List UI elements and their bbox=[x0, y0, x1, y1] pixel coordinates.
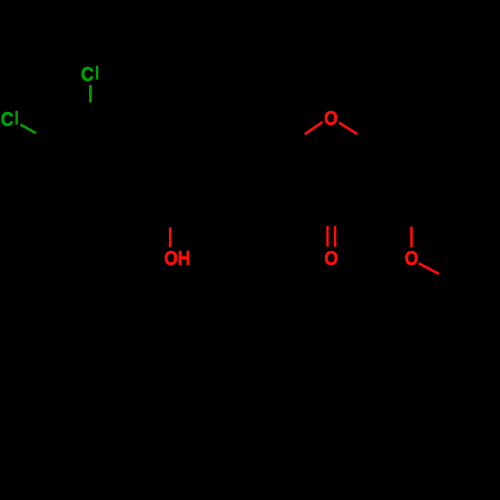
svg-text:O: O bbox=[324, 107, 338, 129]
bond O-CH3 (methoxy methyl), carbon half, black (invisible) bbox=[439, 274, 467, 290]
svg-text:OH: OH bbox=[164, 247, 190, 269]
bond C-Cl (to Cl at ring top), carbon half, black (invisible) bbox=[89, 102, 92, 132]
bond C-Cl (to Cl at ring left), chlorine half, green bbox=[21, 125, 37, 134]
bond O-CH3 (methoxy methyl), oxygen half, red bbox=[419, 263, 439, 274]
svg-text:C: C bbox=[81, 63, 94, 85]
bond C4=O ketone double bond, line 2 oxygen half, red bbox=[334, 226, 336, 247]
bond C8-O (methoxy), oxygen half, red bbox=[410, 226, 413, 247]
bond C8-O (methoxy), carbon half, black (invisible) bbox=[410, 195, 413, 226]
svg-text:O: O bbox=[324, 247, 338, 269]
bond C-Cl (to Cl at ring left), carbon half, black (invisible) bbox=[36, 133, 62, 148]
bond O1-C2 (ring oxygen, right), carbon half, black (invisible) bbox=[357, 134, 383, 150]
bond O1-C2 (ring oxygen, right), oxygen half, red bbox=[339, 123, 358, 135]
bond C-OH, oxygen half, red bbox=[169, 227, 172, 247]
bond O1-C8a (ring oxygen, left), oxygen half, red bbox=[305, 122, 323, 134]
bond C-OH, carbon half, black (invisible) bbox=[169, 197, 172, 228]
bond C4=O ketone double bond, line 1 oxygen half, red bbox=[326, 226, 328, 247]
bond C-Cl (to Cl at ring top), chlorine half, green bbox=[89, 85, 92, 103]
svg-text:C: C bbox=[1, 108, 14, 130]
bond O1-C8a (ring oxygen, left), carbon half, black (invisible) bbox=[279, 134, 305, 150]
svg-text:O: O bbox=[405, 247, 419, 269]
bond C4=O ketone double bond, carbon halves, black (invisible) bbox=[326, 206, 328, 226]
